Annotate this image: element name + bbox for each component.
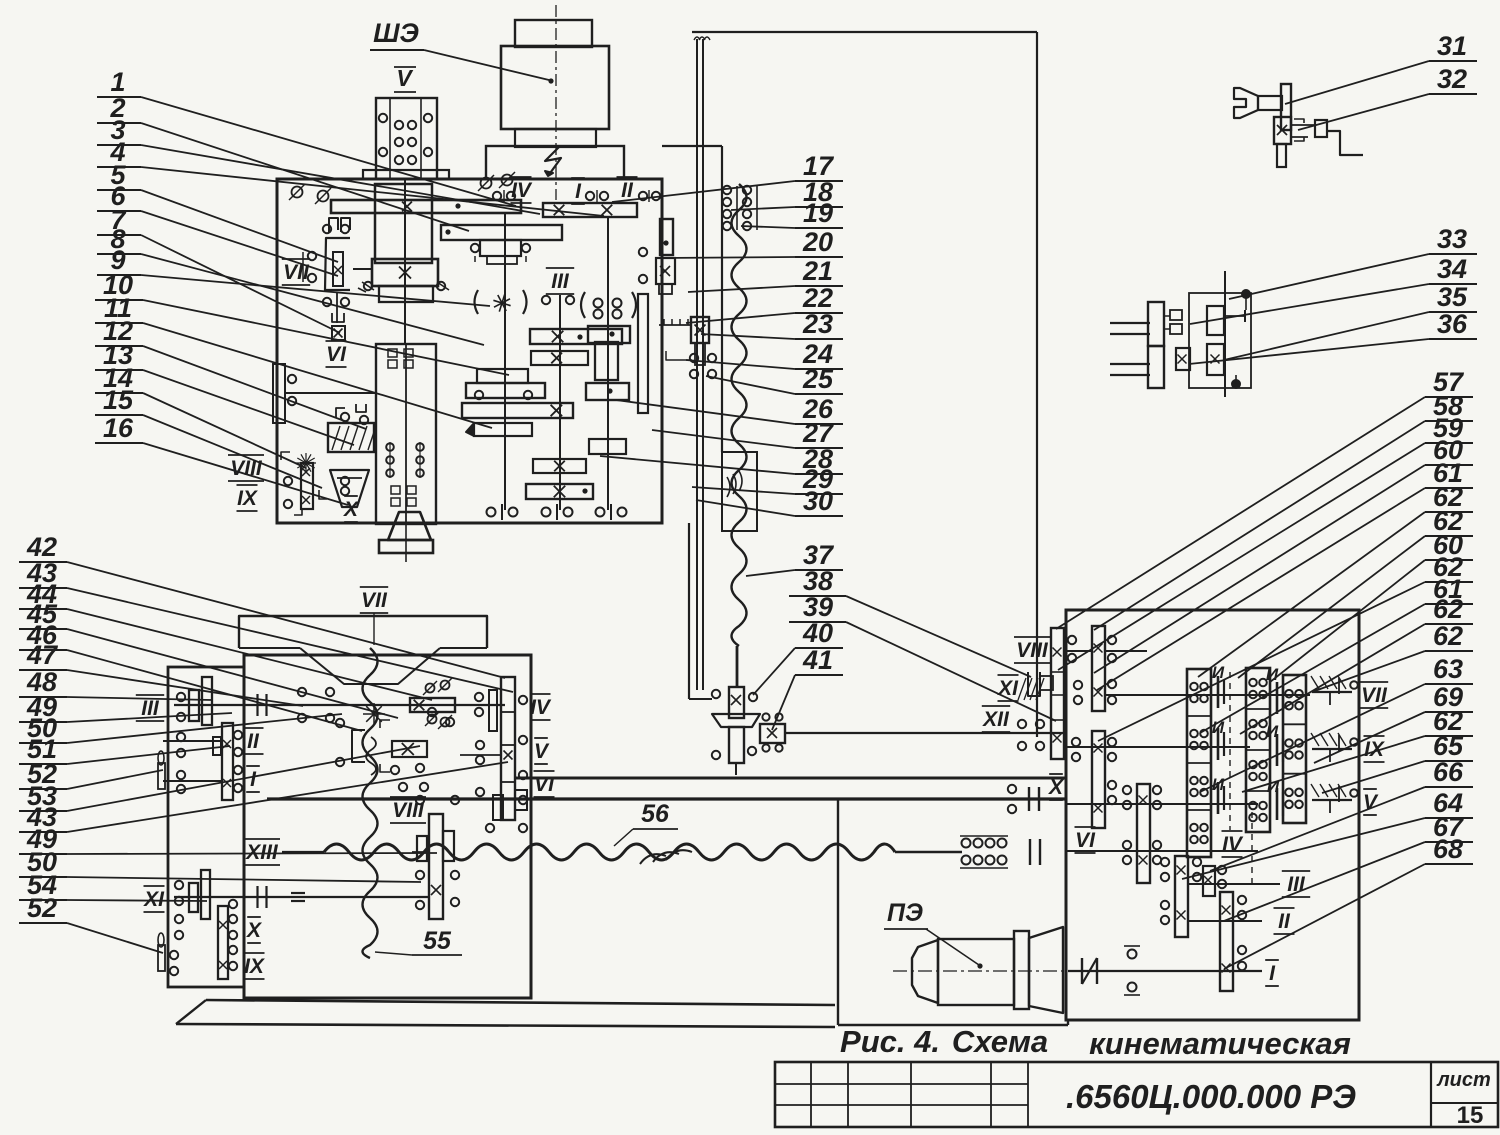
- svg-text:47: 47: [26, 640, 59, 670]
- svg-text:21: 21: [802, 256, 833, 286]
- svg-text:39: 39: [803, 592, 833, 622]
- svg-text:VI: VI: [1075, 829, 1096, 852]
- svg-text:63: 63: [1433, 654, 1463, 684]
- svg-text:IX: IX: [244, 955, 266, 978]
- svg-text:VI: VI: [326, 343, 347, 366]
- svg-text:II: II: [1278, 910, 1291, 933]
- svg-text:34: 34: [1437, 254, 1467, 284]
- svg-text:IV: IV: [530, 696, 552, 719]
- svg-text:II: II: [247, 730, 260, 753]
- svg-text:ПЭ: ПЭ: [887, 899, 923, 927]
- svg-text:62: 62: [1433, 594, 1463, 624]
- svg-text:33: 33: [1437, 224, 1467, 254]
- svg-text:XI: XI: [143, 888, 165, 911]
- svg-text:IV: IV: [1222, 833, 1244, 856]
- svg-text:55: 55: [423, 927, 452, 955]
- svg-text:IX: IX: [237, 487, 259, 510]
- svg-text:лист: лист: [1436, 1069, 1491, 1091]
- svg-text:32: 32: [1437, 64, 1467, 94]
- svg-text:XI: XI: [997, 677, 1019, 700]
- svg-text:30: 30: [803, 486, 833, 516]
- svg-text:36: 36: [1437, 309, 1468, 339]
- svg-text:VI: VI: [534, 773, 555, 796]
- svg-text:19: 19: [803, 198, 833, 228]
- svg-text:V: V: [396, 65, 413, 91]
- svg-text:И: И: [1267, 777, 1280, 796]
- svg-text:62: 62: [1433, 621, 1463, 651]
- svg-text:20: 20: [802, 227, 833, 257]
- svg-text:ШЭ: ШЭ: [373, 18, 419, 48]
- svg-text:56: 56: [641, 800, 670, 828]
- svg-text:Рис. 4.: Рис. 4.: [840, 1024, 940, 1059]
- svg-text:X: X: [343, 498, 360, 521]
- svg-text:25: 25: [802, 364, 834, 394]
- svg-text:X: X: [246, 919, 263, 942]
- svg-text:И: И: [1266, 722, 1279, 741]
- svg-text:VIII: VIII: [392, 799, 425, 822]
- svg-text:15: 15: [1457, 1102, 1484, 1129]
- svg-text:41: 41: [802, 645, 833, 675]
- svg-text:XIII: XIII: [245, 841, 279, 864]
- svg-text:VII: VII: [361, 589, 388, 612]
- svg-text:VIII: VIII: [230, 457, 263, 480]
- svg-text:35: 35: [1437, 282, 1468, 312]
- svg-text:15: 15: [103, 385, 134, 415]
- svg-text:XII: XII: [982, 708, 1010, 731]
- svg-text:Схема: Схема: [952, 1024, 1048, 1059]
- svg-text:.6560Ц.000.000 РЭ: .6560Ц.000.000 РЭ: [1066, 1078, 1356, 1115]
- svg-text:VIII: VIII: [1016, 639, 1049, 662]
- svg-text:III: III: [551, 270, 570, 293]
- svg-text:68: 68: [1433, 834, 1463, 864]
- svg-text:31: 31: [1437, 31, 1467, 61]
- svg-text:16: 16: [103, 413, 134, 443]
- svg-text:VII: VII: [283, 261, 310, 284]
- svg-text:66: 66: [1433, 757, 1464, 787]
- svg-text:кинематическая: кинематическая: [1089, 1026, 1351, 1061]
- svg-text:23: 23: [802, 309, 833, 339]
- svg-text:V: V: [534, 740, 550, 763]
- svg-text:X: X: [1048, 776, 1065, 799]
- svg-text:52: 52: [27, 893, 57, 923]
- svg-text:II: II: [621, 179, 634, 202]
